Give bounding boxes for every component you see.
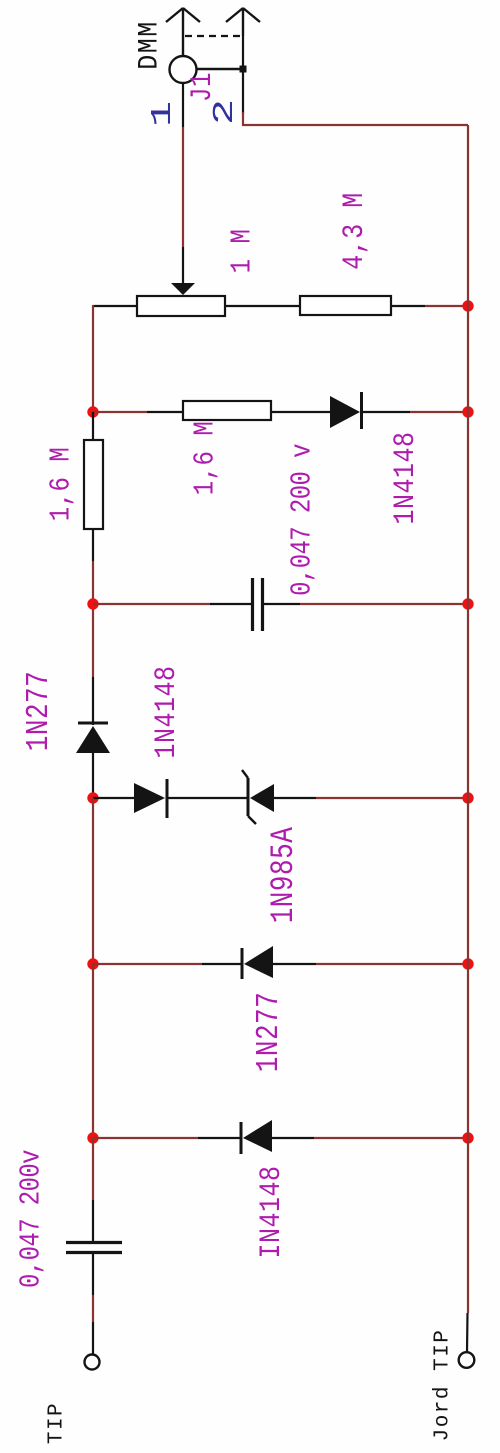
left rail segment to row3: [92, 561, 94, 677]
wire J1 pin2 to right rail: [243, 112, 468, 125]
capacitor C1: [253, 578, 263, 631]
junction dot left row6: [87, 1132, 98, 1143]
resistor R2: [300, 296, 391, 315]
left rail segment row4-5: [92, 798, 94, 964]
wire D1 to right rail: [363, 411, 468, 413]
svg-text:2: 2: [209, 99, 242, 125]
svg-text:4,3 M: 4,3 M: [338, 192, 372, 270]
wire left rail to C2: [92, 1138, 94, 1241]
svg-text:1N4148: 1N4148: [389, 431, 423, 524]
svg-text:1N277: 1N277: [21, 671, 57, 751]
svg-text:1N277: 1N277: [251, 992, 287, 1072]
wire C1 to right rail: [264, 603, 468, 605]
svg-text:DMM: DMM: [133, 20, 164, 69]
svg-text:1N985A: 1N985A: [264, 827, 302, 924]
svg-text:TIP: TIP: [46, 1402, 69, 1444]
wire row4 left: [93, 797, 134, 799]
wire R3 to D1: [271, 411, 330, 413]
junction dot left row5: [87, 958, 98, 969]
wire between R1 and R2: [225, 305, 300, 307]
svg-text:1N4148: 1N4148: [150, 665, 184, 758]
connector J1: [197, 36, 247, 114]
junction dot right row5: [462, 958, 473, 969]
svg-text:J1: J1: [186, 72, 220, 102]
potentiometer wiper arrow: [171, 283, 195, 295]
wire D3 to D4: [168, 797, 248, 799]
junction dot left row2: [87, 406, 98, 417]
diode D3: [134, 779, 167, 818]
wire D5 to right rail: [273, 963, 468, 965]
wire D4 to right rail: [274, 797, 468, 799]
right rail: [467, 125, 469, 1313]
diode D2 vertical: [76, 677, 110, 798]
diode D6: [241, 1120, 272, 1154]
junction dot right row4: [462, 792, 473, 803]
wire row1 left corner: [93, 305, 137, 307]
svg-text:0,047 200v: 0,047 200v: [15, 1150, 48, 1288]
svg-text:0,047 200 v: 0,047 200 v: [286, 444, 319, 596]
svg-text:IN4148: IN4148: [255, 1165, 289, 1258]
resistor R4 vertical: [84, 412, 103, 561]
wire row5 left: [93, 963, 242, 965]
junction dot right row6: [462, 1132, 473, 1143]
svg-text:1,6 M: 1,6 M: [45, 447, 78, 521]
terminal Jord TIP: [459, 1352, 475, 1368]
wire right rail to Jord terminal: [466, 1313, 469, 1352]
wire R2 to right rail: [391, 305, 468, 307]
svg-text:1 M: 1 M: [226, 229, 259, 274]
left rail top segment: [92, 305, 94, 412]
diode D1: [330, 392, 362, 429]
dashed link DMM to J1: [185, 35, 243, 37]
svg-text:1,6 M: 1,6 M: [189, 421, 222, 495]
junction dot right row2: [462, 406, 473, 417]
capacitor C2: [66, 1243, 122, 1253]
left rail segment row5-6: [92, 964, 94, 1138]
DMM probe arrow 1: [166, 8, 200, 55]
junction dot left row4: [87, 792, 98, 803]
diode D5: [242, 946, 273, 979]
wire C2 to TIP terminal: [92, 1254, 94, 1354]
svg-text:1: 1: [147, 101, 180, 127]
wire row2 left: [93, 411, 183, 413]
wire row6 left: [93, 1137, 241, 1139]
junction dot left row3: [87, 598, 98, 609]
resistor R3: [183, 401, 271, 420]
svg-text:Jord TIP: Jord TIP: [432, 1329, 455, 1442]
DMM probe arrow 2: [226, 8, 260, 36]
DMM probe circle: [170, 56, 197, 83]
potentiometer R1: [137, 296, 225, 316]
wire probe1 to potentiometer: [182, 83, 184, 284]
terminal TIP: [85, 1355, 100, 1370]
wire row3 left: [93, 603, 251, 605]
junction dot right row3: [462, 598, 473, 609]
zener D4: [242, 770, 274, 824]
wire D6 to right rail: [272, 1137, 468, 1139]
junction dot right row1: [462, 300, 473, 311]
